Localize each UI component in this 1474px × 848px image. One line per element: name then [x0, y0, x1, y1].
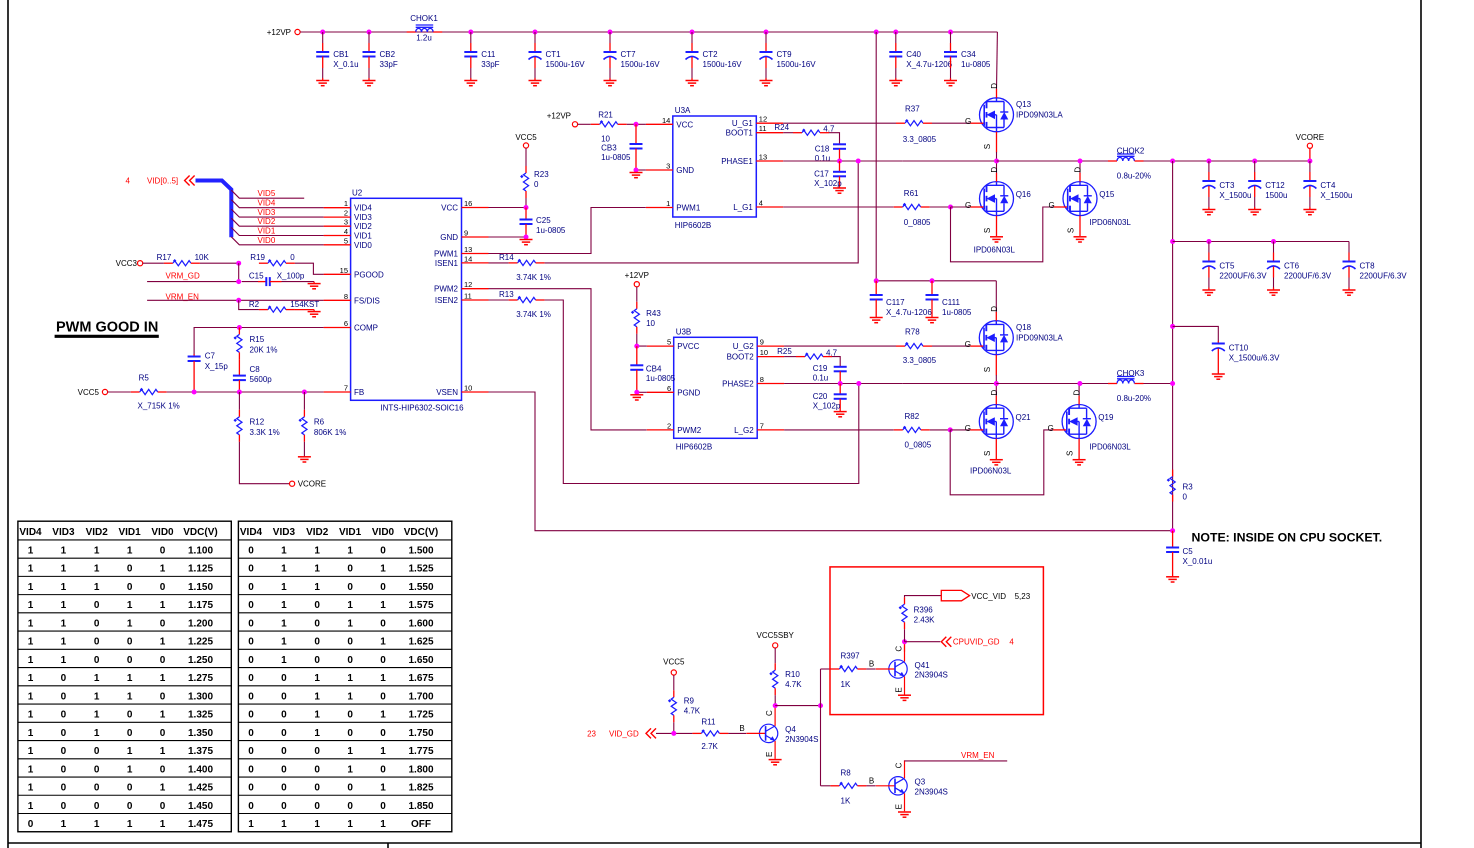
wire R2 to ground	[295, 309, 314, 311]
svg-text:1: 1	[160, 710, 166, 721]
resistor R11	[692, 729, 728, 736]
svg-text:E: E	[765, 752, 774, 757]
svg-text:0: 0	[160, 582, 166, 593]
ground C17	[833, 188, 846, 193]
wire VRM_EN to FS/DIS	[147, 299, 324, 301]
svg-text:0: 0	[380, 618, 386, 629]
svg-text:PHASE2: PHASE2	[722, 380, 754, 389]
svg-text:S: S	[983, 228, 992, 233]
wire VID0 breakout	[231, 237, 323, 245]
svg-text:1500u: 1500u	[1265, 191, 1287, 200]
wire VCC3 to R17	[143, 262, 164, 264]
wire ISEN2 net to R13	[489, 299, 509, 301]
svg-text:D: D	[990, 167, 999, 173]
chevron CPUVID_GD	[941, 637, 951, 647]
svg-text:0: 0	[127, 582, 133, 593]
svg-text:PWM GOOD IN: PWM GOOD IN	[56, 320, 158, 336]
resistor R12	[234, 410, 243, 442]
heading underline	[55, 335, 159, 338]
svg-text:VID1: VID1	[258, 227, 276, 236]
svg-text:1: 1	[127, 618, 133, 629]
svg-text:0: 0	[380, 801, 386, 812]
svg-text:BOOT2: BOOT2	[727, 353, 755, 362]
svg-text:0: 0	[127, 710, 133, 721]
svg-text:1: 1	[380, 710, 386, 721]
page border left	[7, 0, 9, 848]
svg-text:33pF: 33pF	[481, 60, 499, 69]
svg-text:5: 5	[667, 338, 671, 347]
svg-text:3: 3	[344, 218, 348, 227]
svg-text:1.425: 1.425	[188, 783, 213, 794]
svg-text:X_1500u: X_1500u	[1320, 191, 1352, 200]
svg-text:7: 7	[760, 421, 764, 430]
wire +12VP top rail	[300, 31, 997, 33]
pin 7 FB of U2	[324, 384, 365, 398]
junction bulk cap row tap	[1170, 239, 1175, 244]
IC U3B HIP6602B body	[674, 337, 758, 438]
svg-text:8: 8	[760, 375, 764, 384]
svg-text:0: 0	[347, 655, 353, 666]
resistor R9	[668, 690, 677, 722]
svg-text:VID2: VID2	[86, 527, 109, 538]
svg-text:U2: U2	[352, 189, 363, 198]
wire R14 to PHASE1 node	[545, 161, 859, 263]
resistor R21	[591, 120, 627, 127]
svg-text:VID[0..5]: VID[0..5]	[147, 177, 178, 186]
wire PHASE2 rail to CHOK3	[903, 383, 997, 385]
svg-text:1: 1	[281, 637, 287, 648]
svg-text:VCC_VID: VCC_VID	[971, 592, 1006, 601]
transistor Q19	[1053, 396, 1096, 459]
svg-text:2N3904S: 2N3904S	[915, 788, 948, 797]
svg-text:1: 1	[28, 728, 34, 739]
pin 12 PWM2 of U2	[434, 280, 489, 294]
junction C111 tap	[930, 278, 935, 283]
transistor Q21	[970, 396, 1013, 459]
junction Q16/Q15 gate split	[948, 205, 953, 210]
resistor R15	[234, 327, 243, 359]
svg-text:ISEN2: ISEN2	[435, 296, 459, 305]
svg-text:S: S	[1067, 228, 1076, 233]
terminal VCC5 FB input	[102, 389, 107, 394]
svg-text:X_100p: X_100p	[277, 272, 305, 281]
svg-text:VRM_GD: VRM_GD	[166, 272, 200, 281]
svg-text:1: 1	[94, 582, 100, 593]
svg-text:1: 1	[380, 746, 386, 757]
pin 4 VID1 of U2	[324, 227, 373, 241]
svg-text:CB2: CB2	[380, 50, 396, 59]
svg-text:2N3904S: 2N3904S	[785, 735, 818, 744]
wire L_G1 to R61	[783, 206, 894, 208]
svg-text:X_715K 1%: X_715K 1%	[138, 401, 180, 410]
pin 13 PHASE1 of U3A	[721, 153, 783, 167]
svg-text:0: 0	[281, 691, 287, 702]
svg-text:1: 1	[248, 819, 254, 830]
svg-text:CT12: CT12	[1265, 181, 1285, 190]
svg-text:0: 0	[127, 728, 133, 739]
junction VCC/C25	[524, 205, 529, 210]
svg-text:R19: R19	[250, 253, 265, 262]
svg-text:0: 0	[314, 764, 320, 775]
svg-text:10: 10	[601, 134, 610, 143]
svg-text:0.8u-20%: 0.8u-20%	[1117, 172, 1151, 181]
junction CT4 tap	[1307, 159, 1312, 164]
ground C5	[1166, 577, 1179, 582]
svg-text:10: 10	[646, 319, 655, 328]
svg-text:C111: C111	[942, 298, 960, 307]
wire GND pin to CB3	[636, 169, 646, 171]
svg-text:PVCC: PVCC	[677, 342, 699, 351]
page border bottom	[8, 842, 1421, 844]
pin 2 PWM2 of U3B	[647, 421, 702, 435]
svg-text:1: 1	[160, 637, 166, 648]
ground Q3 emitter	[898, 812, 911, 817]
svg-text:1u-0805: 1u-0805	[646, 374, 676, 383]
svg-text:IPD06N03L: IPD06N03L	[1090, 218, 1132, 227]
svg-text:D: D	[1073, 390, 1082, 396]
svg-text:12: 12	[759, 115, 767, 124]
wire Q18 drain drop	[995, 281, 997, 313]
svg-text:0: 0	[248, 582, 254, 593]
capacitor C5	[1166, 531, 1179, 577]
pin 1 VID4 of U2	[324, 199, 373, 213]
capacitor C18	[833, 143, 846, 161]
junction PHASE2/ISEN2	[856, 381, 861, 386]
svg-text:0: 0	[248, 764, 254, 775]
svg-text:GND: GND	[440, 233, 458, 242]
svg-text:1.150: 1.150	[188, 582, 213, 593]
svg-text:C17: C17	[814, 169, 829, 178]
svg-text:1.200: 1.200	[188, 618, 213, 629]
junction CB1 tap	[320, 30, 325, 35]
wire VCC5 to R5	[108, 391, 131, 393]
svg-text:0: 0	[290, 253, 295, 262]
svg-text:1: 1	[344, 199, 348, 208]
svg-text:2.43K: 2.43K	[914, 615, 936, 624]
svg-text:1: 1	[28, 673, 34, 684]
wire +12VP to R43	[636, 287, 638, 302]
capacitor C34	[944, 32, 957, 81]
svg-text:Q13: Q13	[1016, 100, 1032, 109]
svg-text:4: 4	[759, 199, 763, 208]
svg-text:CB3: CB3	[601, 143, 617, 152]
capacitor C40	[889, 32, 902, 81]
svg-text:G: G	[1048, 424, 1054, 433]
capacitor CB4	[630, 346, 643, 392]
svg-text:C117: C117	[886, 298, 905, 307]
svg-text:R24: R24	[774, 123, 789, 132]
svg-text:1: 1	[347, 819, 353, 830]
svg-text:1.250: 1.250	[188, 655, 213, 666]
svg-text:D: D	[990, 83, 999, 89]
svg-text:C11: C11	[481, 50, 496, 59]
svg-text:1.325: 1.325	[188, 710, 213, 721]
transistor Q13	[971, 89, 1014, 152]
svg-text:0: 0	[94, 618, 100, 629]
svg-text:12: 12	[464, 280, 472, 289]
svg-text:VID5: VID5	[258, 189, 276, 198]
svg-text:+12VP: +12VP	[267, 28, 291, 37]
svg-text:0.1u: 0.1u	[813, 373, 829, 382]
svg-text:VCC: VCC	[676, 120, 693, 129]
pin 9 U_G2 of U3B	[733, 338, 784, 352]
svg-text:20K 1%: 20K 1%	[250, 345, 278, 354]
svg-text:1.850: 1.850	[408, 801, 433, 812]
svg-text:VID0: VID0	[258, 236, 276, 245]
capacitor CT1	[529, 32, 542, 81]
svg-text:9: 9	[464, 229, 468, 238]
svg-text:1: 1	[28, 801, 34, 812]
resistor R43	[631, 302, 640, 334]
wire R21 to VCC pin	[627, 123, 646, 125]
svg-text:VID4: VID4	[258, 199, 276, 208]
svg-text:U_G2: U_G2	[733, 342, 754, 351]
svg-text:1500u-16V: 1500u-16V	[777, 60, 817, 69]
svg-text:1.600: 1.600	[408, 618, 433, 629]
wire CHOK3 to trunk	[1144, 383, 1173, 385]
svg-text:1.825: 1.825	[408, 783, 433, 794]
title block divider	[387, 843, 389, 848]
wire R13 to PHASE2 node	[545, 300, 859, 484]
ground R2	[308, 312, 321, 317]
bus entry chevron VID[0..5]	[185, 176, 195, 186]
svg-text:R21: R21	[598, 111, 613, 120]
wire R12 to VCORE terminal	[239, 442, 289, 484]
svg-text:FS/DIS: FS/DIS	[354, 296, 380, 305]
junction C40 tap	[893, 30, 898, 35]
svg-text:E: E	[894, 687, 903, 692]
svg-text:0: 0	[94, 600, 100, 611]
wire R396 to VCC_VID flag	[905, 596, 942, 598]
wire column to R397	[821, 668, 831, 670]
svg-text:1: 1	[314, 691, 320, 702]
terminal VCORE sense	[290, 481, 295, 486]
svg-text:1.450: 1.450	[188, 801, 213, 812]
svg-text:VID0: VID0	[354, 241, 372, 250]
svg-text:1: 1	[347, 691, 353, 702]
wire R6 to ground	[303, 442, 305, 457]
svg-text:Q18: Q18	[1016, 323, 1032, 332]
svg-text:R11: R11	[701, 718, 716, 727]
svg-text:0: 0	[347, 637, 353, 648]
svg-text:0: 0	[281, 710, 287, 721]
bus VID[0..5]	[196, 181, 232, 238]
svg-text:X_102p: X_102p	[813, 401, 841, 410]
svg-text:1.675: 1.675	[408, 673, 433, 684]
svg-text:1: 1	[28, 655, 34, 666]
svg-text:0: 0	[127, 783, 133, 794]
pin 3 VID2 of U2	[324, 218, 373, 232]
svg-text:0: 0	[314, 783, 320, 794]
svg-text:G: G	[965, 424, 971, 433]
svg-text:0: 0	[94, 655, 100, 666]
svg-text:1u-0805: 1u-0805	[942, 308, 972, 317]
wire VID1 breakout	[231, 228, 323, 236]
svg-text:R10: R10	[785, 670, 800, 679]
svg-text:0: 0	[248, 655, 254, 666]
IC U3A HIP6602B body	[673, 116, 757, 217]
ground CB4	[630, 395, 643, 400]
junction GND/CB3	[634, 168, 639, 173]
wire PGND to CB4	[637, 391, 647, 393]
svg-text:0: 0	[314, 655, 320, 666]
ground CT12	[1248, 210, 1261, 215]
ground Q15 source	[1074, 237, 1087, 242]
svg-text:1: 1	[281, 655, 287, 666]
capacitor C8	[233, 359, 246, 392]
terminal VCORE	[1307, 143, 1312, 148]
svg-text:0: 0	[248, 637, 254, 648]
svg-text:0: 0	[347, 710, 353, 721]
capacitor CT3	[1202, 161, 1215, 210]
pin 10 BOOT2 of U3B	[727, 348, 785, 362]
wire R19 to PGOOD pin	[295, 263, 324, 274]
wire VRM_GD	[147, 281, 239, 283]
svg-text:CHOK1: CHOK1	[410, 14, 438, 23]
svg-text:1: 1	[380, 600, 386, 611]
svg-text:R2: R2	[249, 300, 260, 309]
svg-text:0: 0	[281, 728, 287, 739]
box CPU socket group	[830, 567, 1043, 715]
svg-text:4.7K: 4.7K	[684, 706, 701, 715]
svg-text:5: 5	[344, 236, 348, 245]
svg-text:0: 0	[160, 545, 166, 556]
junction CT9 tap	[764, 30, 769, 35]
svg-text:CB4: CB4	[646, 364, 662, 373]
junction C7/FB	[192, 390, 197, 395]
svg-text:0: 0	[160, 691, 166, 702]
ground Q21 source	[990, 460, 1003, 465]
svg-text:154KST: 154KST	[290, 300, 319, 309]
svg-text:0: 0	[160, 618, 166, 629]
junction CT3 tap	[1206, 159, 1211, 164]
capacitor CT5	[1202, 242, 1215, 291]
junction PHASE1/C18/C17	[837, 159, 842, 164]
svg-text:1: 1	[347, 545, 353, 556]
pin 11 BOOT1 of U3A	[726, 124, 784, 138]
ground CT5	[1202, 290, 1215, 295]
svg-text:1.625: 1.625	[408, 637, 433, 648]
svg-text:1: 1	[281, 600, 287, 611]
svg-text:VID1: VID1	[118, 527, 141, 538]
svg-text:1.225: 1.225	[188, 637, 213, 648]
ground C40	[889, 81, 902, 86]
svg-text:10K: 10K	[195, 253, 210, 262]
svg-text:0: 0	[61, 710, 67, 721]
svg-text:+12VP: +12VP	[625, 271, 649, 280]
svg-text:0: 0	[380, 545, 386, 556]
svg-text:1: 1	[94, 691, 100, 702]
svg-text:FB: FB	[354, 388, 364, 397]
svg-text:1: 1	[28, 764, 34, 775]
svg-text:0: 0	[380, 691, 386, 702]
terminal VCC5 logic	[671, 670, 676, 675]
svg-text:0: 0	[61, 728, 67, 739]
junction CT1 tap	[533, 30, 538, 35]
svg-text:1: 1	[281, 582, 287, 593]
svg-text:G: G	[1049, 201, 1055, 210]
pin 8 PHASE2 of U3B	[722, 375, 784, 389]
svg-text:0: 0	[28, 819, 34, 830]
capacitor C15	[242, 277, 314, 286]
svg-text:CT8: CT8	[1360, 262, 1376, 271]
svg-text:1: 1	[127, 819, 133, 830]
wire FB to R6	[303, 392, 305, 410]
resistor R14	[509, 259, 545, 266]
wire Q3 collector VRM_EN	[905, 760, 1008, 762]
svg-text:S: S	[1066, 451, 1075, 456]
svg-text:0: 0	[248, 600, 254, 611]
svg-text:D: D	[990, 390, 999, 396]
svg-text:U3B: U3B	[676, 327, 692, 336]
wire PWM2 net U2 to U3B	[489, 289, 647, 430]
svg-text:1: 1	[28, 637, 34, 648]
svg-text:1.525: 1.525	[408, 564, 433, 575]
transistor Q3	[876, 760, 907, 811]
svg-text:CPUVID_GD: CPUVID_GD	[953, 638, 1000, 647]
junction Q15 drain	[1078, 159, 1083, 164]
svg-text:R8: R8	[841, 768, 852, 777]
svg-text:C: C	[894, 762, 903, 768]
svg-text:CHOK2: CHOK2	[1117, 147, 1145, 156]
svg-text:1: 1	[281, 545, 287, 556]
wire Q15 drain from phase1 rail	[1079, 161, 1081, 173]
svg-text:VID2: VID2	[306, 527, 329, 538]
svg-text:16: 16	[464, 199, 472, 208]
resistor R10	[769, 663, 778, 695]
svg-text:0: 0	[94, 637, 100, 648]
svg-text:1: 1	[314, 728, 320, 739]
wire ISEN1 net to R14	[489, 262, 509, 264]
svg-text:NOTE: INSIDE ON CPU SOCKET.: NOTE: INSIDE ON CPU SOCKET.	[1192, 531, 1383, 545]
ground CT9	[760, 81, 773, 86]
wire R9 to VID_GD junction	[673, 722, 675, 733]
svg-text:S: S	[983, 451, 992, 456]
svg-text:X_4.7u-1206: X_4.7u-1206	[906, 60, 952, 69]
resistor R13	[509, 296, 545, 303]
svg-text:VCC5: VCC5	[663, 658, 685, 667]
svg-text:1: 1	[94, 819, 100, 830]
svg-text:VCC3: VCC3	[116, 259, 138, 268]
svg-text:1: 1	[127, 673, 133, 684]
junction CT7 tap	[608, 30, 613, 35]
svg-text:1: 1	[28, 618, 34, 629]
capacitor CB3	[630, 124, 643, 170]
ground CB3	[630, 173, 643, 178]
svg-text:0: 0	[314, 637, 320, 648]
svg-text:3.3K 1%: 3.3K 1%	[250, 428, 280, 437]
resistor R3	[1167, 470, 1175, 502]
resistor R23	[520, 166, 529, 198]
wire bulk cap row	[1173, 241, 1349, 243]
capacitor C11	[464, 32, 477, 81]
svg-text:R37: R37	[905, 105, 920, 114]
resistor R78	[896, 342, 932, 349]
svg-text:S: S	[983, 144, 992, 149]
wire VID5 breakout	[231, 190, 304, 198]
svg-text:G: G	[965, 340, 971, 349]
capacitor CT4	[1303, 161, 1316, 210]
wire CHOK2 to VCORE rail	[1144, 160, 1310, 162]
svg-text:L_G2: L_G2	[734, 426, 754, 435]
wire +12V feed down to C117 row	[876, 32, 996, 281]
svg-text:10: 10	[464, 384, 472, 393]
wire gate node to Q16 gate	[951, 206, 971, 208]
svg-text:CT3: CT3	[1219, 181, 1235, 190]
junction C34 tap	[948, 30, 953, 35]
svg-text:1.300: 1.300	[188, 691, 213, 702]
svg-text:R14: R14	[499, 253, 514, 262]
